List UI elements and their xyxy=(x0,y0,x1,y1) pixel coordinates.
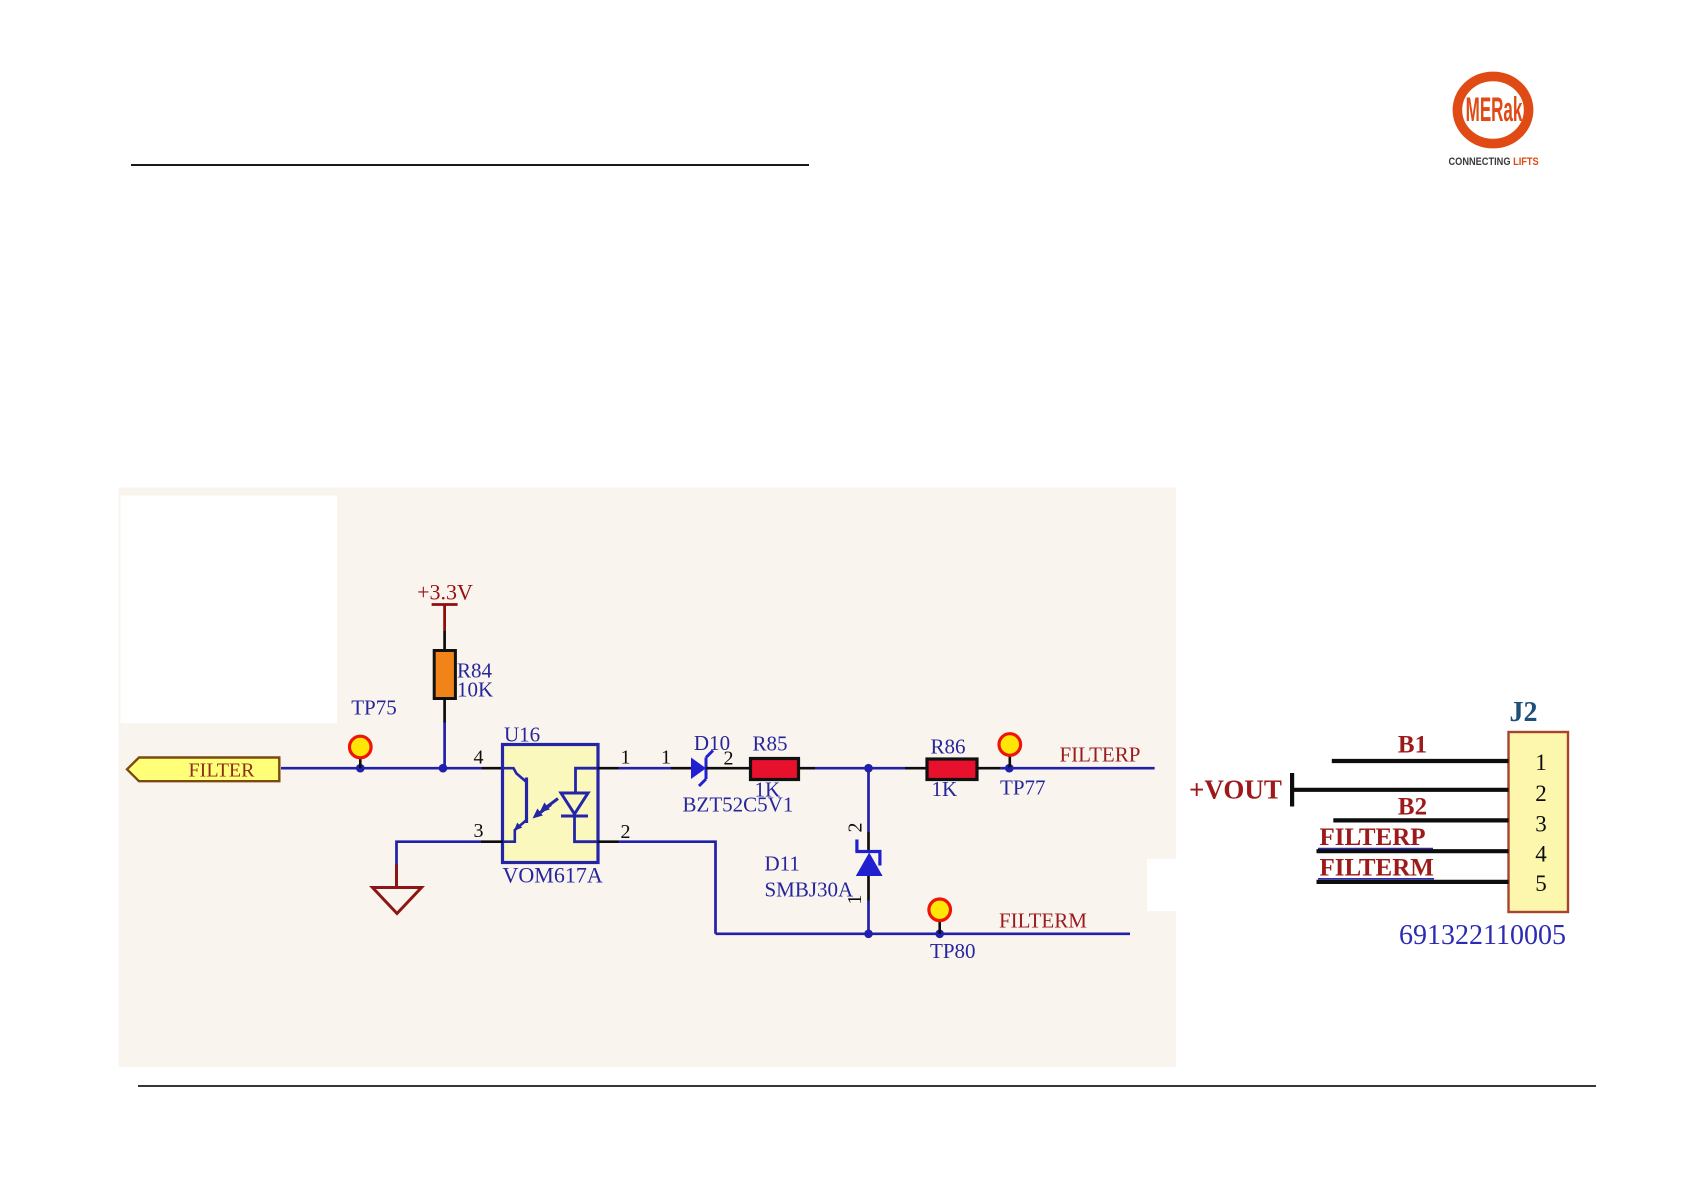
wire node to D11 xyxy=(867,768,870,831)
pin wire B2 xyxy=(1333,818,1508,822)
svg-text:2: 2 xyxy=(845,823,867,833)
junction TP77 xyxy=(1005,764,1014,773)
pin wire FILTERM xyxy=(1317,880,1509,884)
connector J2 xyxy=(1509,697,1569,912)
svg-text:B2: B2 xyxy=(1398,794,1427,821)
svg-text:3: 3 xyxy=(474,820,484,842)
svg-text:691322110005: 691322110005 xyxy=(1399,920,1566,951)
svg-text:TP80: TP80 xyxy=(930,939,976,963)
svg-text:5: 5 xyxy=(1535,871,1547,896)
svg-text:D11: D11 xyxy=(765,852,800,876)
svg-text:1: 1 xyxy=(844,895,866,905)
U16 pin 3 stub xyxy=(481,840,503,843)
svg-text:FILTERP: FILTERP xyxy=(1060,743,1141,767)
wire U16 pin1 to D10 xyxy=(619,767,672,770)
resistor R85 xyxy=(751,732,799,802)
diode D10 pin 2 stub xyxy=(706,767,751,770)
wire FILTER to junction xyxy=(281,767,443,770)
+VOUT terminal xyxy=(1189,773,1292,807)
wire U16 pin3 to ground xyxy=(397,842,482,865)
schematic sheet background xyxy=(119,488,1177,1068)
svg-text:J2: J2 xyxy=(1510,697,1538,728)
U16 LED xyxy=(561,768,598,842)
svg-text:10K: 10K xyxy=(457,678,493,702)
wire U16 pin2 to bottom rail xyxy=(619,842,716,934)
svg-text:FILTERP: FILTERP xyxy=(1320,824,1426,851)
svg-text:CONNECTING LIFTS: CONNECTING LIFTS xyxy=(1449,156,1539,168)
svg-text:4: 4 xyxy=(1535,842,1547,867)
svg-text:R85: R85 xyxy=(753,732,788,756)
FILTERM underline wire xyxy=(1318,878,1434,880)
svg-text:2: 2 xyxy=(1535,781,1547,806)
power +3.3V xyxy=(417,580,473,631)
svg-text:1: 1 xyxy=(661,747,671,769)
svg-text:3: 3 xyxy=(1535,812,1547,837)
wire R84 to bus junction xyxy=(443,723,446,769)
svg-text:FILTER: FILTER xyxy=(189,760,256,782)
svg-text:1: 1 xyxy=(1535,750,1547,775)
svg-text:SMBJ30A: SMBJ30A xyxy=(765,878,855,902)
wire FILTERP xyxy=(1009,767,1154,770)
junction node D11 top xyxy=(864,764,873,773)
svg-text:FILTERM: FILTERM xyxy=(999,909,1087,933)
pin wire 2 (+VOUT) xyxy=(1292,788,1508,792)
junction at TP75 xyxy=(356,764,365,773)
pin wire B1 xyxy=(1332,759,1509,763)
svg-text:4: 4 xyxy=(474,747,484,769)
test point TP75 xyxy=(350,696,397,769)
U16 pin 1 stub xyxy=(598,767,619,770)
wire node to R86 xyxy=(869,767,906,770)
svg-text:1K: 1K xyxy=(755,778,781,802)
diode D10 xyxy=(683,731,794,817)
bottom rail FILTERM wire xyxy=(716,932,1131,935)
svg-text:MERak: MERak xyxy=(1466,91,1523,129)
test point TP80 xyxy=(929,899,976,963)
svg-text:2: 2 xyxy=(621,821,631,843)
junction D11 bottom xyxy=(864,930,873,939)
pin wire FILTERP xyxy=(1317,849,1509,853)
footer rule xyxy=(138,1085,1596,1087)
wire R85 to node xyxy=(799,767,816,770)
svg-text:1: 1 xyxy=(621,747,631,769)
junction TP80 xyxy=(935,930,944,939)
resistor R84 xyxy=(434,630,493,722)
wire junction to U16 pin 4 xyxy=(443,767,482,770)
D11 pin 1 stub xyxy=(867,876,870,901)
svg-text:TP75: TP75 xyxy=(351,696,397,720)
port FILTER xyxy=(127,758,279,782)
svg-text:FILTERM: FILTERM xyxy=(1320,855,1434,882)
resistor R86 xyxy=(927,735,977,802)
U16 phototransistor xyxy=(503,768,527,842)
svg-text:U16: U16 xyxy=(504,723,540,747)
optocoupler U16 xyxy=(503,723,603,888)
U16 light arrows xyxy=(533,799,559,819)
diode D10 pin 1 stub xyxy=(671,767,691,770)
svg-text:+VOUT: +VOUT xyxy=(1189,775,1282,805)
MERak logo ring xyxy=(1457,76,1528,143)
svg-text:VOM617A: VOM617A xyxy=(503,863,603,888)
svg-text:1K: 1K xyxy=(932,777,958,801)
ground xyxy=(373,865,422,914)
header rule xyxy=(131,164,809,166)
svg-text:R86: R86 xyxy=(931,735,966,759)
U16 pin 2 stub xyxy=(598,840,619,843)
diode D11 (zener) xyxy=(765,840,883,902)
svg-text:+3.3V: +3.3V xyxy=(417,580,473,605)
FILTERP underline wire xyxy=(1318,848,1433,850)
svg-text:2: 2 xyxy=(724,748,734,770)
junction at TP75/R84 node xyxy=(439,764,448,773)
svg-text:TP77: TP77 xyxy=(1000,776,1046,800)
wire R86 to TP77 junction xyxy=(977,767,1000,770)
test point TP77 xyxy=(999,734,1046,800)
svg-text:B1: B1 xyxy=(1398,732,1427,759)
